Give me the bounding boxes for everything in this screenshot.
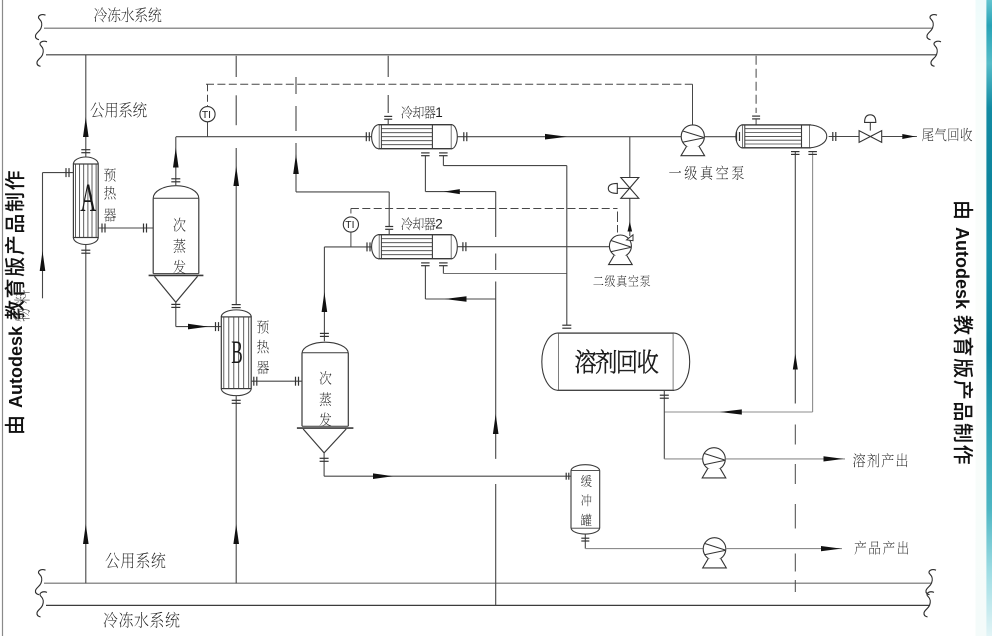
label 溶剂产出 (853, 453, 865, 467)
pump 一级真空泵 (681, 125, 704, 148)
wire: evaporator1 cone outlet down and to exchanger B (175, 302, 177, 326)
cooler 冷却器2 (379, 235, 452, 259)
wire: cooler2 bottom-right drain (442, 266, 444, 274)
wire: top pipe line 2 (utility) (46, 54, 936, 56)
flange solvent recovery bottom nozzle (660, 394, 669, 396)
label 公用系统 top (91, 102, 105, 117)
evaporator1 cone (154, 276, 175, 302)
label 溶剂回收 (576, 349, 596, 373)
flange buffer tank bottom nozzle (581, 537, 589, 539)
label 产品产出 (855, 541, 867, 555)
wire: cooler1 bottom-right drain to solvent recovery (442, 156, 444, 166)
flow arrow up (vapor out evap1) (173, 148, 179, 168)
flow arrow up (cooler2 return) (293, 154, 299, 174)
flange B top nozzle (232, 304, 241, 306)
heat exchanger B (预热器) (221, 310, 251, 317)
flange evaporator1 cone nozzle (171, 303, 180, 305)
svg-text:1: 1 (435, 105, 443, 120)
wire: condenser bottom-left riser (solid) (794, 152, 796, 404)
wire: buffer tank to product pump (gray) (585, 548, 703, 550)
flange evaporator1 left nozzle (143, 224, 145, 233)
label 尾气回收 (922, 128, 933, 141)
flange condenser top nozzle (wide) (752, 115, 760, 117)
wire: drain to solvent recovery bottom nozzle (664, 411, 812, 413)
pipe break symbol bottom-left 2 (37, 592, 47, 617)
flange condenser right nozzle (832, 132, 834, 141)
label 次蒸发 (2) (320, 371, 332, 385)
flange cooler1 right nozzle (463, 132, 465, 141)
flange buffer tank inlet (565, 473, 567, 480)
label 缓冲罐 (581, 475, 592, 487)
flange condenser bottom-right nozzle (808, 151, 817, 153)
pump solvent product (703, 448, 726, 471)
label 二级真空泵 (593, 277, 603, 285)
cooler 冷却器1 (379, 125, 452, 149)
wire: bottom pipe line 1 (utility) (44, 582, 931, 584)
control valve (tail gas) (859, 131, 870, 143)
label 冷却器2 (401, 217, 412, 230)
vessel 溶剂回收 (solvent recovery drum) (558, 333, 673, 390)
flange solvent recovery top nozzle (562, 324, 571, 326)
svg-text:TI: TI (345, 220, 354, 231)
wire: cooler2 bottom-left inlet (424, 266, 426, 299)
wire: pump2 discharge up through valve to header (629, 137, 631, 178)
instrument TI1 (200, 107, 215, 122)
flange evaporator2 top nozzle (320, 332, 329, 334)
flow arrow left (drain into vessel) (720, 409, 742, 414)
label 预热器 (B) (257, 320, 269, 333)
evaporator2 skirt line (297, 427, 354, 429)
wire: A right outlet to evaporator 1 (98, 227, 153, 229)
control dashed line TI2 to vacuum pump 2 (351, 208, 618, 210)
right watermark 由 Autodesk 教育版产品制作 (rotated) (952, 202, 973, 464)
wire: top pipe line 1 (chilled water) (44, 27, 932, 29)
pipe break symbol bottom-right 1 (926, 570, 936, 595)
wire: solvent recovery bottom outlet (663, 390, 665, 459)
svg-text:TI: TI (202, 110, 211, 121)
pipe break symbol top-left 1 (35, 15, 45, 40)
flange cooler1 bottom-right nozzle (439, 152, 448, 154)
instrument TI2 drop line (350, 232, 352, 247)
wire: chilled water supply riser x=495.7 (segments) (495, 192, 497, 237)
heat exchanger A (预热器) (73, 157, 98, 164)
flange A left nozzle (65, 168, 67, 177)
pipe break symbol bottom-right 2 (924, 592, 934, 617)
wire: B right outlet to evaporator 2 (251, 380, 302, 382)
flange B right nozzle (253, 377, 255, 386)
control dashed drop to pump2 (617, 212, 619, 223)
flange cooler2 right nozzle (462, 242, 464, 251)
wire: tail gas outlet (882, 136, 917, 138)
label 公用系统 bottom (106, 553, 120, 569)
wire: evaporator1 vapor line to main header (175, 137, 177, 185)
flow arrow right (tail gas) (902, 134, 915, 139)
wire: cooler2 right outlet to vacuum pump2 (457, 246, 609, 248)
wire: cooler2 top return riser (segments) to top pipe (295, 77, 297, 94)
wire: evaporator2 vapor riser to cooler2 (323, 247, 325, 341)
control dashed stub TI1 (207, 84, 209, 106)
wire: A bottom nozzle down to bottom pipe (85, 245, 87, 583)
wire: B top utility riser (segments with crossing gaps) (235, 56, 237, 77)
wire: main vapor line evap1->cooler1 (176, 136, 372, 138)
wire: cooler1 bottom-left inlet from chilled supply (424, 156, 426, 192)
pipe break symbol bottom-left 1 (35, 570, 45, 595)
label 物料 (feed material, rotated) (14, 290, 29, 321)
vessel 次蒸发 1 (153, 186, 199, 199)
flow arrow right (evap1 to B) (188, 324, 208, 330)
flow arrow right (vapor to pump1) (545, 134, 567, 140)
flange cooler1 bottom-left nozzle (421, 152, 430, 154)
pipe break symbol top-right 1 (927, 15, 937, 40)
flow arrow right (solvent out) (824, 456, 844, 461)
label 次蒸发 (1) (174, 218, 186, 232)
svg-text:Autodesk: Autodesk (6, 325, 26, 408)
flow arrow up (pump2 discharge) (628, 222, 633, 232)
wire: solvent to pump (gray) (664, 458, 702, 460)
flange A bottom nozzle (81, 249, 90, 251)
flange B left nozzle (215, 322, 217, 331)
vessel 次蒸发 2 (302, 342, 348, 353)
flange cooler1 top nozzle (wide) (384, 115, 392, 117)
instrument TI2 (343, 217, 358, 232)
label 冷冻水系统 bottom (104, 612, 118, 628)
wire: cooler1 top riser to top pipe (segments) (387, 56, 389, 77)
svg-text:2: 2 (435, 217, 443, 232)
flange condenser bottom-left nozzle (791, 151, 800, 153)
wire: utility riser from exchanger A top to top pipe (85, 55, 87, 157)
valve (angle valve with actuator) above pump2 (621, 178, 639, 189)
pump2 discharge flag (627, 235, 633, 241)
flow arrow up (into condenser) (793, 354, 798, 370)
flange cooler2 bottom-left nozzle (421, 262, 430, 264)
flange evaporator1 top nozzle (171, 178, 180, 180)
wire: cooler1 right outlet to vacuum pump1 (457, 136, 681, 138)
svg-text:Autodesk: Autodesk (952, 227, 972, 310)
pump product (703, 538, 726, 561)
left frame line (2, 0, 4, 636)
wire: product out (726, 548, 842, 550)
evaporator1 skirt line (149, 274, 204, 276)
instrument TI1 drop line (207, 122, 209, 137)
vessel 缓冲罐 (buffer tank) (571, 465, 600, 471)
flange cooler2 top nozzle (wide) (385, 226, 393, 228)
control dashed stub TI2 (350, 209, 352, 218)
flow arrow up (A top outlet) (83, 117, 89, 137)
condenser heat exchanger (742, 125, 810, 148)
flow arrow up (vapor out evap2) (322, 292, 328, 312)
flange evaporator2 cone nozzle (320, 457, 329, 459)
flange A top nozzle (81, 149, 90, 151)
label 预热器 (A) (104, 168, 116, 181)
flange cooler1 left nozzle (365, 132, 367, 141)
flange evaporator2 left nozzle (295, 377, 297, 386)
pump 二级真空泵 (609, 235, 631, 257)
label 冷冻水系统 top (94, 7, 107, 22)
wire: bottom pipe line 2 (chilled water) (46, 604, 929, 606)
flange A right nozzle (101, 224, 103, 233)
wire: dashed continuation below (794, 425, 796, 445)
wire: B bottom nozzle to bottom pipe (235, 396, 237, 583)
wire: evaporator2 cone outlet to buffer tank (323, 453, 325, 476)
control line drop to pump1 (692, 84, 694, 125)
wire: pump1 discharge to condenser (704, 136, 736, 138)
flange B bottom nozzle (232, 399, 241, 401)
flange condenser left nozzle (736, 132, 738, 141)
flow arrow left (chilled water into cooler1) (444, 189, 460, 194)
wire: condenser bottom-right drain (gray) (812, 152, 814, 413)
label 一级真空泵 (669, 171, 681, 173)
wire: feed line 物料 up into A left nozzle (42, 173, 44, 299)
svg-text:B: B (231, 334, 242, 370)
flange cooler2 bottom-right nozzle (439, 262, 448, 264)
right cyan water-texture bar (976, 0, 987, 636)
flange cooler2 left nozzle (366, 242, 368, 251)
pipe break symbol top-right 2 (931, 41, 941, 66)
wire: dashed utility to condenser top (755, 56, 757, 113)
label 冷却器1 (401, 106, 412, 119)
flow arrow left (chilled water into cooler2) (445, 296, 467, 302)
flow arrow up (A bottom inlet) (83, 524, 89, 544)
evaporator2 cone (303, 429, 324, 453)
flow arrow right (product out) (821, 546, 841, 551)
wire: buffer tank bottom outlet (584, 535, 586, 549)
flow arrow up (feed) (40, 251, 46, 271)
flow arrow right (to buffer tank) (373, 473, 393, 479)
wire: solvent product out (725, 458, 845, 460)
flow arrow up (chilled supply) (493, 414, 499, 434)
pipe break symbol top-left 2 (37, 41, 47, 66)
svg-text:A: A (80, 176, 97, 220)
wire: cooler drains riser into solvent recovery top (566, 166, 568, 326)
left watermark 由 Autodesk 教育版产品制作 (rotated) (5, 171, 26, 433)
control dashed line TI1 to vacuum pump 1 (206, 83, 693, 85)
flow arrow up (B top outlet) (233, 166, 239, 186)
wire: condenser outlet to tail gas valve (829, 136, 860, 138)
flow arrow up (B bottom inlet) (233, 524, 239, 544)
